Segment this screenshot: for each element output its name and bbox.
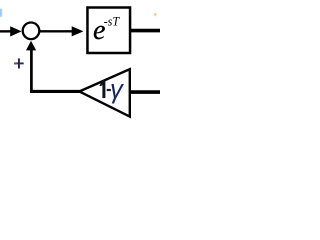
plus label	[14, 58, 24, 68]
summing junction circle	[23, 23, 40, 40]
label 1-gamma: digit 1	[99, 81, 105, 99]
arrowhead into delay block	[72, 26, 84, 36]
wire delay block output to right edge	[130, 29, 160, 33]
delay block U1	[87, 8, 130, 54]
gain triangle U2 (points left)	[79, 69, 130, 116]
wire input left	[0, 30, 12, 32]
wire corner up to summing junction	[30, 49, 33, 93]
background	[0, 0, 160, 120]
wire gain triangle output to corner	[30, 90, 80, 93]
wire right edge into gain triangle	[130, 90, 160, 94]
arrowhead into summing junction	[10, 26, 21, 36]
svg-text:γ: γ	[110, 76, 124, 104]
stray orange artifact top right	[154, 13, 156, 15]
stray blue artifact left edge	[0, 9, 2, 17]
svg-text:-sT: -sT	[104, 14, 121, 28]
label 1-gamma: minus	[107, 89, 111, 91]
wire summing junction to delay block	[40, 30, 74, 32]
arrowhead into summing junction bottom	[26, 41, 36, 51]
